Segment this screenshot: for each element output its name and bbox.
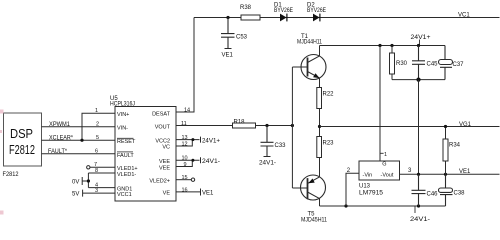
wire XCLEAR* (DSP to U5 pin 5) [42,139,116,141]
svg-text:LM7915: LM7915 [359,191,384,197]
resistor R23 [317,137,322,158]
DSP block DSP F2812 [4,113,42,166]
C45 label [427,62,439,68]
junction base column [291,124,294,127]
svg-text:VE1: VE1 [202,191,214,197]
capacitor C33 [261,126,274,157]
diode D1 BYV26E [280,14,288,22]
VG1 net label [459,122,472,128]
svg-text:R18: R18 [234,120,246,126]
svg-text:VCC1: VCC1 [117,192,132,198]
U13 pin1 number [384,152,387,158]
wire VOUT pin11 to R18 [176,125,233,127]
24V1+ rail label tap [419,40,421,46]
junction pins13/12 bracket [191,138,194,141]
wire DESAT pin14 up to top rail [176,18,194,113]
wire vertical branch to pin 1 [82,113,115,140]
junction 0V [87,179,90,182]
U5 right pin names [149,112,170,197]
svg-text:VLED1-: VLED1- [117,172,136,178]
svg-text:VOUT: VOUT [155,124,171,130]
VE1 label at pin16 [202,191,214,197]
svg-text:VE1: VE1 [459,169,471,175]
svg-text:XCLEAR*: XCLEAR* [49,136,74,142]
svg-text:-Vout: -Vout [381,173,394,179]
svg-text:24V1-: 24V1- [202,159,220,165]
U13 pin3 number [408,168,412,174]
junction big at C45 bottom [416,78,420,82]
R34 label [449,143,461,149]
net label XCLEAR* [49,136,74,142]
C37 label [453,62,465,68]
24V1- label at pins 10/9 [202,159,220,165]
24V1- rail tap [414,206,416,213]
svg-text:R22: R22 [323,92,335,98]
svg-text:5: 5 [96,135,99,141]
capacitor C45 [412,46,425,80]
svg-text:R38: R38 [240,5,252,11]
24V1+ rail label [411,35,432,41]
T1 labels [297,34,323,46]
svg-text:C45: C45 [427,62,439,68]
transistor T1 MJD44H11 [292,46,326,91]
resistor R30 [390,46,395,80]
regulator U13 LM7915 box [359,161,400,180]
junction R34/C38 [444,173,447,176]
svg-text:HCPL316J: HCPL316J [110,101,135,107]
svg-text:U13: U13 [359,184,371,190]
svg-text:R34: R34 [449,143,461,149]
svg-text:13: 13 [182,135,188,141]
resistor R22 [317,88,322,109]
svg-text:VE: VE [163,191,171,197]
junction C45 [417,44,420,47]
wire R18 to base node [256,125,293,127]
svg-text:0V: 0V [72,180,79,186]
24V1- rail label [410,217,430,223]
net label FAULT* [48,149,68,155]
bottom tie of R30 C45 C37 [392,79,445,81]
VE1 label below C53 [222,53,234,59]
U5 left pin numbers [94,108,99,194]
svg-text:FAULT: FAULT [117,153,134,159]
svg-text:24V1+: 24V1+ [202,138,220,144]
wire FAULT* (DSP to U5 pin 6) [42,153,116,155]
svg-text:RESET: RESET [117,139,136,145]
svg-text:VIN-: VIN- [117,126,128,132]
svg-text:24V1-: 24V1- [259,160,276,166]
T5 labels [301,212,328,224]
R30 label [396,61,408,67]
junction C46 bottom [417,204,420,207]
24V1+ label at pins 13/12 [202,138,220,144]
C46 label [427,192,439,198]
D1 labels [274,3,293,15]
DSP label [3,126,36,178]
svg-text:F2812: F2812 [9,142,35,157]
svg-text:BYV26E: BYV26E [307,8,326,14]
svg-text:2: 2 [96,121,99,127]
wires pins 13/12 bracket to 24V1+ [176,137,201,146]
bottom rail 24V1- [320,205,446,207]
svg-text:6: 6 [95,149,98,155]
24V1+ rail [320,45,446,47]
svg-text:24V1+: 24V1+ [411,35,432,41]
capacitor C46 [412,174,426,206]
wire R22 to R23 through VG1 tap [319,109,321,137]
svg-text:MJD45H11: MJD45H11 [301,218,328,224]
base column wire T1 to T5 [291,67,293,188]
VC1 net label [458,13,470,19]
svg-text:C38: C38 [454,191,466,197]
junction VG1 tap [318,125,321,128]
C53 label [236,35,248,41]
svg-text:10: 10 [182,156,188,162]
pin 7 stub wire with open circle [87,166,115,169]
svg-text:9: 9 [184,162,187,168]
top rail to VC1 [194,17,500,19]
pin 8 stub wire [88,172,115,174]
pin 16 VE wire to VE1 tap [176,189,201,196]
U13 pin names [363,161,394,178]
junction U13 pin1 column [378,44,381,47]
svg-text:DSP: DSP [10,126,33,141]
svg-text:MJD44H11: MJD44H11 [297,40,323,46]
T1 emitter arrow [313,73,320,78]
wire bracket pins 8-4 [87,173,89,188]
junction R34 top [444,125,447,128]
junction on XCLEAR* wire [80,139,83,142]
svg-text:12: 12 [182,142,188,148]
svg-text:VC: VC [162,145,170,151]
svg-text:DESAT: DESAT [152,112,171,118]
overline FAULT [117,151,133,153]
R22 label [323,92,335,98]
5V label [72,192,79,198]
wires pins 10/9 bracket to 24V1- [176,157,201,166]
svg-text:C37: C37 [453,62,465,68]
svg-text:FAULT*: FAULT* [48,149,68,155]
resistor R38 [241,15,260,20]
D2 labels [307,3,326,15]
R23 label [323,141,335,147]
pin 15 stub with open circle [176,178,195,181]
svg-text:1: 1 [384,152,387,158]
U5 left pin names [117,112,138,198]
svg-text:5V: 5V [72,192,79,198]
svg-text:C33: C33 [275,143,287,149]
svg-text:BYV26E: BYV26E [274,8,293,14]
svg-text:F2812: F2812 [3,171,19,178]
svg-text:G: G [382,161,386,167]
svg-text:VEE: VEE [159,159,170,165]
svg-text:VC1: VC1 [458,13,470,19]
svg-text:1: 1 [95,108,98,114]
svg-text:VCC2: VCC2 [155,138,170,144]
svg-text:16: 16 [182,187,188,193]
pin 4 stub wire [88,187,115,189]
U5 right pin numbers [181,108,190,194]
net label XPWM1 [49,122,71,128]
capacitor C37 polarized [439,46,453,80]
overline RESET [117,137,134,139]
U5 reference labels [110,96,135,107]
VE1 line from U13 pin3 [400,173,500,175]
junction pins10/9 bracket [191,159,194,162]
C33 label [275,143,287,149]
pink edge artifact marks [0,110,4,215]
C38 label [454,191,466,197]
T5 emitter arrow (PNP) [308,179,314,184]
U13 pin1 tick [380,152,384,154]
resistor R34 [443,127,448,175]
svg-text:VE1: VE1 [222,53,234,59]
junction C53 [226,16,229,19]
0V label [72,180,79,186]
svg-text:24V1-: 24V1- [410,217,430,223]
svg-text:VLED2+: VLED2+ [149,178,170,184]
svg-text:R23: R23 [323,141,335,147]
svg-text:C53: C53 [236,35,248,41]
wire U13 pin2 from bottom rail [346,173,359,206]
junction R30 [390,44,393,47]
junction C46 top [417,173,420,176]
svg-text:-Vin: -Vin [363,173,373,179]
wire U13 pin1 from 24V1+ rail [379,46,381,162]
svg-text:15: 15 [182,175,188,181]
svg-text:VIN+: VIN+ [117,112,129,118]
svg-text:3: 3 [408,168,412,174]
junction C33 tap [265,124,268,127]
svg-text:14: 14 [184,108,190,114]
U13 pin2 number [347,168,351,174]
24V1- label below C33 [259,160,276,166]
transistor T5 MJD45H11 [292,158,325,207]
capacitor C53 [221,18,235,49]
0V power tap [82,177,88,185]
diode D2 BYV26E [313,14,321,22]
svg-text:VG1: VG1 [459,122,472,128]
svg-text:VEE: VEE [159,165,170,171]
U13 reference labels [359,184,384,197]
op-to coupler U5 HCPL316J box [115,107,176,202]
T5 base bar width fix [307,178,309,199]
resistor R18 [233,123,256,128]
junction U13 pin2 column [344,204,347,207]
svg-text:C46: C46 [427,192,439,198]
VG1 line [320,126,500,128]
svg-text:XPWM1: XPWM1 [49,122,71,128]
R38 label [240,5,252,11]
svg-text:R30: R30 [396,61,408,67]
wire C45 column down to VE1 line [418,80,420,175]
wire XPWM1 (DSP to U5 pin 2) [42,126,116,128]
pin 3 stub wire + 5V tap [83,190,115,197]
VE1 net label [459,169,471,175]
R18 value label [234,120,246,126]
capacitor C38 polarized [439,174,453,206]
